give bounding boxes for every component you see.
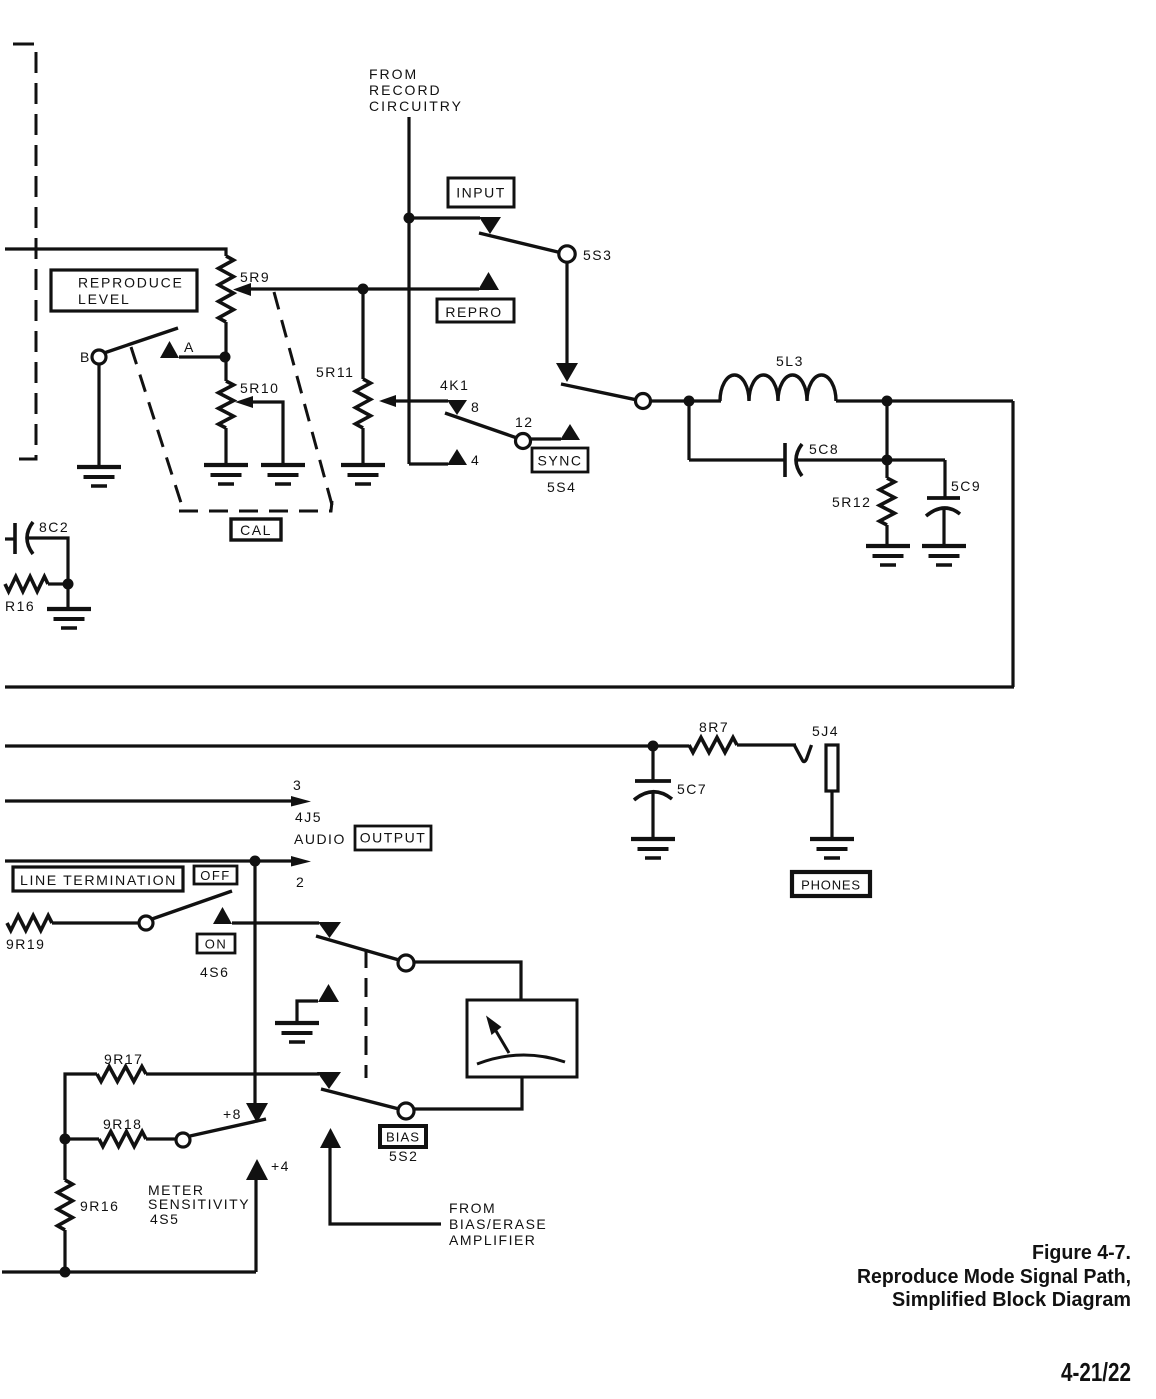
wire 5R11 wiper (379, 395, 448, 407)
node INPUT label box (448, 178, 514, 207)
wire ground contact elbow (297, 1001, 318, 1022)
wire 5S3 pole down (565, 262, 568, 364)
wire 5S3 pole to junction (650, 399, 689, 402)
svg-text:BIAS: BIAS (386, 1130, 420, 1145)
svg-text:8R7: 8R7 (699, 719, 729, 735)
resistor 8R7 (689, 738, 737, 753)
switch 4S6 pole (139, 916, 153, 930)
meter M1 needle (486, 1016, 509, 1054)
wire 5S2 dashed linkage (365, 949, 368, 1078)
node junction R16 (63, 579, 74, 590)
switch 5S2 upper arm (316, 936, 399, 960)
jack 5J4 tip contact (794, 745, 812, 762)
resistor R16 (5, 577, 64, 592)
wire to 5C9 (887, 460, 945, 498)
ground below 5R12 (866, 546, 910, 565)
node PHONES label box (792, 872, 870, 896)
switch 5S4 label (547, 479, 576, 495)
node SYNC contact arrow (560, 424, 580, 440)
node junction line 2 (250, 856, 261, 867)
svg-text:5J4: 5J4 (812, 723, 839, 739)
page number (1061, 1357, 1131, 1387)
svg-text:PHONES: PHONES (801, 878, 861, 893)
node junction 5C7 (648, 741, 659, 752)
wire to right edge (887, 399, 1013, 402)
node LINE TERMINATION label box (13, 867, 183, 891)
ground below 5R10 wiper (261, 465, 305, 484)
figure caption (857, 1241, 1131, 1311)
switch 4S6 contact arrow (213, 907, 232, 924)
ground below B (77, 467, 121, 486)
node junction 5L3 input (684, 396, 695, 407)
capacitor 8C2 label (39, 519, 69, 535)
node 5S2 ground contact arrow (318, 984, 339, 1002)
resistor 9R17 (97, 1067, 146, 1082)
inductor 5L3 (720, 375, 836, 401)
svg-text:AMPLIFIER: AMPLIFIER (449, 1232, 536, 1248)
wire audio line to 8R7 (652, 744, 689, 747)
switch 5S3 input contact arrow (479, 217, 501, 234)
svg-text:CAL: CAL (240, 522, 272, 538)
node FROM BIAS arrow (320, 1128, 341, 1148)
switch REPRO contact arrow (478, 272, 499, 290)
resistor 5R12 (880, 460, 895, 545)
svg-text:REPRO: REPRO (445, 304, 502, 320)
svg-text:SENSITIVITY: SENSITIVITY (148, 1196, 250, 1212)
svg-text:+4: +4 (271, 1158, 290, 1174)
wire junction vertical (885, 401, 888, 460)
node AUDIO OUTPUT label (294, 826, 431, 850)
switch 4S5 pole (176, 1133, 190, 1147)
svg-text:5L3: 5L3 (776, 353, 804, 369)
wire 5S2 pole to meter top (414, 962, 521, 1000)
capacitor 5C9 (926, 498, 960, 545)
node junction 5R12 (882, 455, 893, 466)
svg-text:Simplified Block Diagram: Simplified Block Diagram (892, 1288, 1131, 1311)
wire 8C2 left lead (5, 537, 14, 540)
wire R16 junction down (66, 584, 69, 608)
wire elbow to pin 4 (409, 462, 448, 465)
inductor 5L3 label (776, 353, 804, 369)
wire CAL dashed bottom (179, 501, 332, 511)
svg-text:9R19: 9R19 (6, 936, 45, 952)
wire 5R9 wiper (233, 283, 479, 296)
svg-text:LINE TERMINATION: LINE TERMINATION (20, 873, 177, 888)
wire B pole down (97, 364, 100, 467)
resistor 9R16 (58, 1180, 73, 1272)
resistor 9R19 (7, 916, 139, 931)
svg-text:4J5: 4J5 (295, 809, 322, 825)
node 3 label (293, 777, 302, 793)
svg-text:5R9: 5R9 (240, 269, 270, 285)
svg-text:5C8: 5C8 (809, 441, 839, 457)
node OFF label box (194, 866, 237, 884)
switch 5S3 arm (479, 233, 562, 253)
node REPRODUCE LEVEL label box (51, 270, 197, 311)
ground below 5R10 (204, 465, 248, 484)
capacitor 8C2 (15, 522, 33, 554)
resistor 9R18 (65, 1132, 176, 1147)
svg-text:4: 4 (471, 452, 480, 468)
switch 5S3 lower pole (636, 394, 651, 409)
node junction A (220, 352, 231, 363)
svg-text:5R11: 5R11 (316, 364, 354, 380)
resistor 5R11 (356, 379, 371, 464)
ground below R16 (47, 609, 91, 628)
svg-text:9R18: 9R18 (103, 1116, 142, 1132)
relay 4K1 contact 8 arrow (447, 399, 480, 415)
svg-text:9R17: 9R17 (104, 1051, 143, 1067)
svg-text:BIAS/ERASE: BIAS/ERASE (449, 1216, 547, 1232)
svg-text:5R12: 5R12 (832, 494, 871, 510)
svg-text:Figure 4-7.: Figure 4-7. (1032, 1241, 1131, 1264)
svg-text:4-21/22: 4-21/22 (1061, 1357, 1131, 1387)
resistor 5R12 label (832, 494, 871, 510)
wire 9R18 junction down (63, 1139, 66, 1180)
wire output 3 arrow (5, 796, 311, 807)
capacitor 5C8 (785, 443, 802, 477)
wire CAL dashed left (131, 347, 183, 509)
wire from-record vertical (407, 117, 410, 464)
switch 5S3 pole (559, 246, 575, 262)
resistor 5R10 (219, 381, 234, 464)
wire to 5S3 input contact (409, 216, 480, 219)
node output junction (882, 396, 893, 407)
wire output return line (5, 685, 1014, 688)
wire 5C8 to junction (797, 458, 887, 461)
wire 5C8 branch right (689, 458, 784, 461)
wire bottom return (2, 1270, 256, 1273)
switch cal arm (104, 328, 178, 353)
node 4J5 label (295, 809, 322, 825)
switch 4S5 arm (190, 1119, 266, 1136)
wire input line to 5R9 (5, 249, 226, 256)
node junction 5R11 top (358, 284, 369, 295)
switch 5S2 lower pole (398, 1103, 414, 1119)
wire 5R9 to 5R10 (224, 322, 227, 381)
switch 5S2 label (389, 1148, 418, 1164)
svg-text:12: 12 (515, 414, 534, 430)
svg-text:5S3: 5S3 (583, 247, 612, 263)
node A arrow (160, 339, 195, 358)
node FROM RECORD CIRCUITRY (369, 66, 463, 114)
resistor 5R11 label (316, 364, 354, 380)
svg-text:RECORD: RECORD (369, 82, 442, 98)
capacitor 5C7 label (677, 781, 707, 797)
wire 5R11 top (361, 289, 364, 379)
resistor R16 label (5, 598, 35, 614)
ground below 5C7 (631, 839, 675, 858)
svg-text:LEVEL: LEVEL (78, 291, 131, 307)
relay 4K1 pole 12 (515, 414, 534, 449)
ground below 5C9 (922, 546, 966, 565)
svg-text:5R10: 5R10 (240, 380, 279, 396)
wire 5J4 down (830, 791, 833, 838)
svg-text:INPUT: INPUT (456, 185, 506, 201)
switch 5S3 lower contact arrow (556, 363, 578, 382)
svg-text:OFF: OFF (200, 868, 231, 883)
wire 5R10 wiper (235, 396, 283, 464)
svg-text:SYNC: SYNC (538, 453, 583, 469)
svg-text:2: 2 (296, 874, 305, 890)
switch 5S2 upper pole (398, 955, 414, 971)
relay 4K1 arm (445, 413, 517, 438)
meter M1 box (467, 1000, 577, 1077)
wire 4S6 vertical (253, 861, 256, 1104)
resistor 5R10 label (240, 380, 279, 396)
resistor 9R17 label (104, 1051, 143, 1067)
svg-text:AUDIO: AUDIO (294, 831, 346, 847)
capacitor 5C7 (634, 781, 672, 838)
wire dashed boundary top-left (9, 44, 36, 459)
wire +4 vertical (254, 1180, 257, 1272)
wire 4S6 to 5S2 (232, 921, 319, 924)
svg-text:5C9: 5C9 (951, 478, 981, 494)
wire junction to 5L3 (689, 399, 721, 402)
resistor 9R19 label (6, 936, 45, 952)
svg-text:4S6: 4S6 (200, 964, 229, 980)
wire 4K1 pole to SYNC (530, 437, 561, 440)
svg-text:FROM: FROM (449, 1200, 496, 1216)
capacitor 5C9 label (951, 478, 981, 494)
node 4 arrow (447, 449, 480, 468)
svg-text:+8: +8 (223, 1106, 242, 1122)
ground below 5R11 (341, 465, 385, 484)
node FROM BIAS/ERASE AMPLIFIER label (449, 1200, 547, 1248)
resistor 5R9 label (240, 269, 270, 285)
svg-text:REPRODUCE: REPRODUCE (78, 275, 184, 291)
switch cal pole B (80, 349, 106, 365)
svg-text:A: A (184, 339, 195, 355)
wire audio output line (5, 744, 652, 747)
switch 5S2 upper contact arrow (318, 922, 341, 938)
node +4 arrow (246, 1158, 290, 1180)
node junction 9R16 bottom (60, 1267, 71, 1278)
svg-text:4S5: 4S5 (150, 1211, 179, 1227)
node 2 label (296, 874, 305, 890)
svg-text:R16: R16 (5, 598, 35, 614)
switch 5S2 lower contact arrow (317, 1072, 341, 1089)
resistor 9R16 label (80, 1198, 119, 1214)
svg-text:8C2: 8C2 (39, 519, 69, 535)
wire 8C2 to junction (27, 538, 68, 584)
node +8 arrow (223, 1103, 268, 1123)
node ON label box (197, 934, 235, 953)
svg-text:8: 8 (471, 399, 480, 415)
svg-text:FROM: FROM (369, 66, 418, 82)
wire 9R17 to 5S2 contact (146, 1072, 319, 1075)
svg-text:4K1: 4K1 (440, 377, 469, 393)
wire 5C8 branch down (687, 401, 690, 460)
node BIAS label box (380, 1126, 426, 1147)
switch 4S6 arm (152, 891, 232, 919)
svg-text:CIRCUITRY: CIRCUITRY (369, 98, 463, 114)
svg-text:Reproduce Mode Signal Path,: Reproduce Mode Signal Path, (857, 1265, 1131, 1288)
resistor 5R9 (219, 256, 234, 322)
node input junction (404, 213, 415, 224)
wire 5C7 down (651, 746, 654, 780)
meter M1 scale arc (477, 1055, 565, 1064)
relay 4K1 label (440, 377, 469, 393)
svg-text:B: B (80, 349, 91, 365)
wire A to junction (179, 355, 225, 358)
node REPRO label box (437, 299, 514, 322)
wire FROM BIAS (330, 1148, 441, 1224)
switch 5S3 label (583, 247, 612, 263)
resistor 8R7 label (699, 719, 729, 735)
jack 5J4 body (812, 723, 839, 791)
svg-text:5S2: 5S2 (389, 1148, 418, 1164)
ground below 5J4 (810, 839, 854, 858)
switch 5S2 lower arm (321, 1089, 399, 1109)
node SYNC label box (532, 448, 588, 472)
switch 5S3 lower arm (561, 384, 637, 400)
svg-text:ON: ON (205, 937, 228, 952)
svg-text:3: 3 (293, 777, 302, 793)
wire right edge down (1011, 401, 1014, 687)
wire CAL dashed right (274, 292, 332, 505)
switch 4S5 meter sensitivity label (148, 1182, 250, 1227)
capacitor 5C8 label (809, 441, 839, 457)
svg-text:9R16: 9R16 (80, 1198, 119, 1214)
wire 8R7 to jack (737, 743, 796, 746)
wire output 2 (5, 856, 311, 867)
wire 5L3 to output junction (836, 399, 887, 402)
wire 9R17 line left (65, 1074, 97, 1139)
ground 5S2 contact (275, 1023, 319, 1042)
wire meter bottom to 5S2 (414, 1077, 522, 1109)
resistor 9R18 label (103, 1116, 142, 1132)
svg-text:5S4: 5S4 (547, 479, 576, 495)
svg-text:OUTPUT: OUTPUT (360, 830, 427, 846)
node CAL label box (231, 519, 281, 540)
svg-text:5C7: 5C7 (677, 781, 707, 797)
switch 4S6 label (200, 964, 229, 980)
node junction 9R18 (60, 1134, 71, 1145)
